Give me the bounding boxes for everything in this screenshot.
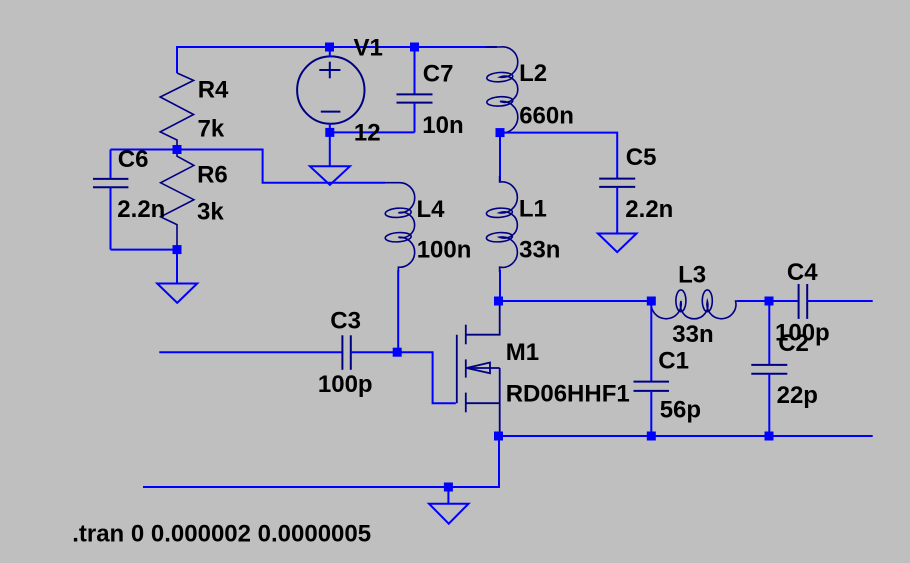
wire stem to ground under R6 (176, 250, 178, 284)
capacitor C7 (397, 47, 433, 132)
svg-text:22p: 22p (777, 382, 818, 409)
voltage source V1 (297, 56, 364, 123)
svg-text:2.2n: 2.2n (625, 196, 673, 223)
wire C3 right to gate node (351, 351, 397, 353)
svg-text:L3: L3 (678, 262, 706, 289)
wire source down and bottom rail (143, 436, 499, 487)
svg-text:C5: C5 (626, 144, 657, 171)
capacitor C2 (751, 301, 787, 436)
wire stem to ground under V1 (329, 132, 331, 166)
inductor L4 (385, 183, 415, 272)
inductor L3 (651, 290, 738, 319)
capacitor C4 (799, 284, 808, 319)
wire L1 top lead (499, 133, 501, 181)
svg-text:C2: C2 (778, 330, 809, 357)
junction node squares (173, 43, 774, 492)
wire L2 bottom node to C5 (500, 133, 617, 179)
svg-text:33n: 33n (519, 237, 560, 264)
svg-text:100p: 100p (318, 371, 373, 398)
svg-text:C1: C1 (658, 347, 689, 374)
node V1 bottom (325, 128, 334, 137)
svg-text:.tran 0 0.000002 0.0000005: .tran 0 0.000002 0.0000005 (72, 521, 371, 548)
wire C3 left (159, 351, 342, 353)
node L3 left (647, 297, 656, 306)
wire gate node to MOSFET gate (397, 352, 456, 403)
svg-text:C7: C7 (423, 60, 454, 87)
svg-text:100n: 100n (417, 237, 472, 264)
inductor L1 (486, 176, 517, 272)
wire R4 top lead (176, 46, 178, 73)
svg-text:R6: R6 (197, 162, 228, 189)
wire L4 bottom lead down to gate node (397, 270, 399, 352)
capacitor C6 (93, 150, 128, 250)
ground under R6/C6 (157, 284, 197, 303)
inductor L2 (486, 47, 518, 133)
svg-text:660n: 660n (519, 103, 574, 130)
wire V1 to C7 bottom (330, 131, 415, 133)
svg-text:M1: M1 (506, 339, 539, 366)
wire stem to bottom ground (447, 487, 449, 504)
capacitor C1 (634, 301, 670, 436)
svg-text:R4: R4 (198, 76, 229, 103)
svg-text:C3: C3 (330, 308, 361, 335)
svg-text:12: 12 (354, 119, 381, 146)
svg-text:RD06HHF1: RD06HHF1 (506, 381, 630, 408)
node R6 bottom (173, 245, 182, 254)
node C7 top (410, 43, 419, 52)
node L3 right (765, 297, 774, 306)
wire L3 right to C4/C2 node (737, 300, 798, 302)
wire C6 bottom to R6 bottom junction (111, 249, 178, 251)
wire V1 top lead (329, 46, 331, 57)
node bottom ground (444, 483, 453, 492)
ground under V1 (310, 166, 350, 185)
node C1 bottom (647, 432, 656, 441)
wire base node row C6 to corner (111, 150, 386, 183)
svg-text:L1: L1 (519, 196, 547, 223)
svg-text:V1: V1 (354, 35, 383, 62)
resistor R6 (161, 150, 194, 250)
svg-text:3k: 3k (197, 199, 224, 226)
svg-text:7k: 7k (198, 116, 225, 143)
wire C4 right stub (807, 300, 873, 302)
ground under C5 (598, 234, 637, 253)
svg-text:L2: L2 (519, 60, 547, 87)
resistor R4 (160, 73, 193, 150)
node gate (393, 348, 402, 357)
node C2 bottom (765, 432, 774, 441)
node drain (494, 297, 503, 306)
transistor M1 (457, 302, 500, 435)
ground bottom (429, 504, 469, 524)
wire L1 bottom lead to drain node (499, 270, 501, 301)
node R4/R6 (173, 145, 182, 154)
capacitor C3 (342, 335, 350, 370)
capacitor C5 (599, 179, 635, 234)
svg-text:C6: C6 (118, 146, 149, 173)
svg-text:2.2n: 2.2n (117, 196, 165, 223)
node source (494, 432, 503, 441)
svg-text:C4: C4 (787, 259, 818, 286)
wire top rail from R4 to L2 entry (177, 46, 497, 48)
wire drain rail (499, 300, 651, 302)
node L2 bottom (496, 128, 505, 137)
svg-text:56p: 56p (660, 396, 701, 423)
svg-text:33n: 33n (672, 321, 713, 348)
wire V1 bottom lead (329, 123, 331, 132)
wire source rail (499, 435, 873, 437)
node V1 top (325, 43, 334, 52)
svg-text:10n: 10n (422, 112, 463, 139)
svg-text:L4: L4 (417, 196, 446, 223)
